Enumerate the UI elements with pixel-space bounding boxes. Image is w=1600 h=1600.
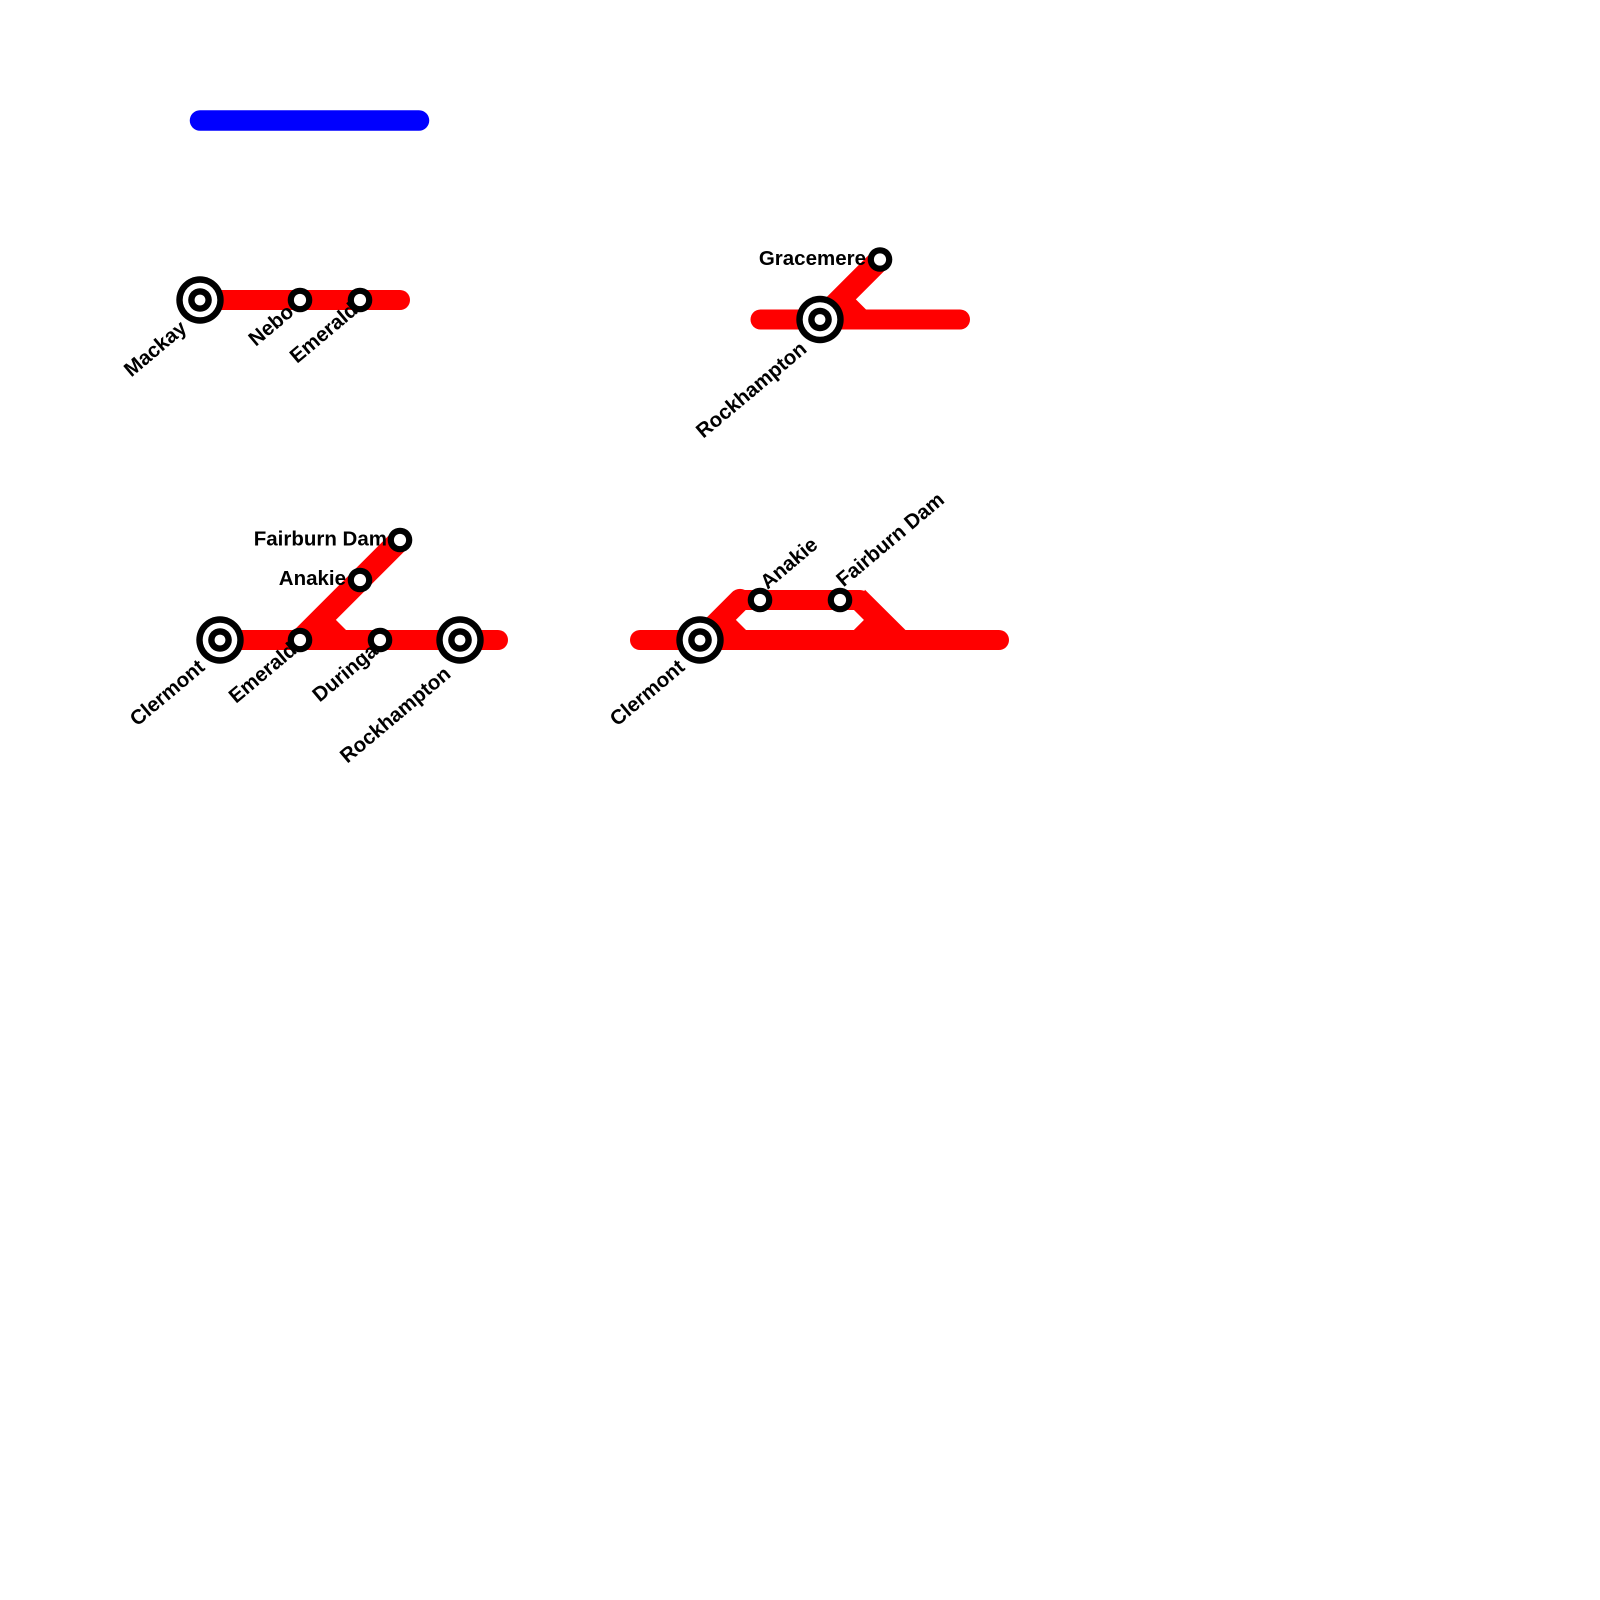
junction wedge D4 right <box>854 620 874 630</box>
node Duringa (stop) <box>368 628 393 653</box>
wire: loop top segment <box>740 590 860 610</box>
junction wedge D4 left <box>718 614 748 632</box>
node Anakie D4 (stop) <box>748 588 773 613</box>
node Clermont D4 (interchange) <box>676 616 723 663</box>
node Anakie D3 (stop) <box>348 568 373 593</box>
node Fairburn Dam D3 (stop) <box>388 528 413 553</box>
svg-text:Anakie: Anakie <box>756 533 822 594</box>
node Gracemere (stop) <box>868 247 893 272</box>
wire: branch to Gracemere <box>820 260 880 320</box>
node Rockhampton D3 (interchange) <box>436 616 483 663</box>
wire: branch Emerald - Fairburn Dam <box>300 540 400 640</box>
node Emerald D3 (stop) <box>288 628 313 653</box>
wire: red main line D3 <box>220 630 498 650</box>
svg-text:Fairburn Dam: Fairburn Dam <box>832 488 949 591</box>
legend: blue line <box>200 110 419 131</box>
node Nebo (stop) <box>288 288 313 313</box>
svg-text:Gracemere: Gracemere <box>759 247 866 270</box>
node Emerald (stop) <box>348 288 373 313</box>
node Fairburn Dam D4 (stop) <box>828 588 853 613</box>
junction wedge D3 <box>318 614 348 632</box>
wire: loop right diagonal junction <box>853 590 908 632</box>
node Mackay (interchange) <box>176 276 223 323</box>
svg-text:Rockhampton: Rockhampton <box>692 337 811 442</box>
wire: red main line D4 <box>640 630 999 650</box>
node Rockhampton (interchange) <box>796 296 843 343</box>
node Clermont (interchange) <box>196 616 243 663</box>
junction wedge D2 <box>838 294 868 312</box>
wire: red main line D2 <box>761 310 961 330</box>
svg-text:Fairburn Dam: Fairburn Dam <box>254 528 387 551</box>
svg-text:Mackay: Mackay <box>120 316 192 382</box>
svg-text:Clermont: Clermont <box>125 655 209 731</box>
wire: loop left diagonal <box>700 600 740 640</box>
wire: red main line D1 <box>200 290 400 310</box>
svg-text:Clermont: Clermont <box>605 655 689 731</box>
svg-text:Anakie: Anakie <box>279 567 346 590</box>
